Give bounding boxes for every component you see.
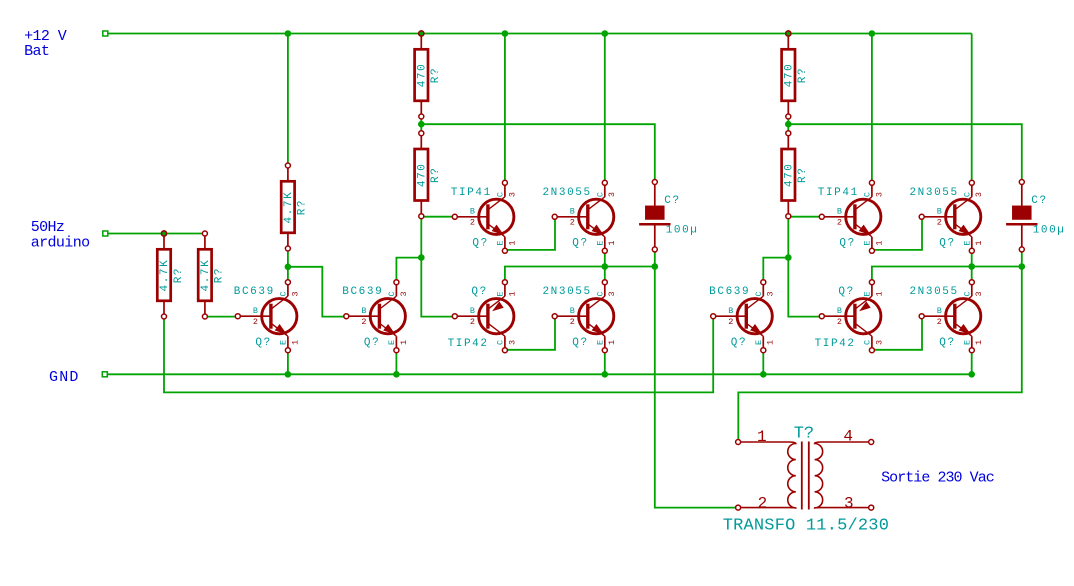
- capacitor C1 100u: [639, 180, 698, 252]
- svg-text:Q?: Q?: [939, 337, 955, 349]
- resistor R6 value 470: [782, 31, 810, 119]
- svg-text:E: E: [279, 340, 289, 345]
- wire 470L pin bridge: [420, 117, 422, 133]
- svg-text:E: E: [387, 340, 397, 345]
- pin-end ring on junction: [419, 31, 424, 36]
- svg-text:Q?: Q?: [255, 337, 271, 349]
- junction gnd-2N3055-2: [602, 371, 609, 378]
- svg-text:E: E: [596, 340, 606, 345]
- svg-text:2: 2: [570, 317, 575, 327]
- svg-text:TIP42: TIP42: [815, 338, 856, 350]
- svg-text:B: B: [837, 207, 842, 217]
- svg-text:100µ: 100µ: [666, 225, 699, 237]
- wire R7 bottom to TIP41-2 base: [788, 216, 822, 218]
- svg-text:GND: GND: [49, 369, 80, 386]
- svg-text:470: 470: [416, 162, 428, 187]
- svg-text:2: 2: [470, 218, 475, 228]
- junction out-left-cap: [652, 263, 659, 270]
- wire R3 node to BC639-2 base: [288, 267, 346, 317]
- svg-text:3: 3: [766, 291, 776, 296]
- svg-text:R?: R?: [430, 67, 442, 83]
- svg-text:1: 1: [290, 340, 300, 345]
- svg-text:1: 1: [874, 240, 884, 245]
- svg-text:2: 2: [361, 317, 366, 327]
- wire rail to TIP41-1 collector: [504, 34, 506, 184]
- wire TIP41-1 emitter to 2N3055-1 base: [505, 217, 555, 250]
- pin-end ring on junction: [161, 231, 166, 236]
- junction rail-R3: [285, 30, 292, 37]
- global label pad GND: [102, 372, 107, 377]
- svg-text:C: C: [496, 192, 506, 197]
- svg-text:1: 1: [507, 291, 517, 296]
- svg-text:BC639: BC639: [234, 286, 275, 298]
- junction rail-470L: [418, 30, 425, 37]
- svg-text:2: 2: [758, 494, 768, 512]
- wire BC639-2 emitter to GND: [395, 350, 397, 375]
- svg-text:Q?: Q?: [572, 337, 588, 349]
- junction gnd-BC639-2: [393, 371, 400, 378]
- svg-text:B: B: [728, 306, 733, 316]
- wire 470 junction to C2 top: [788, 124, 1022, 182]
- svg-text:470: 470: [416, 63, 428, 88]
- pin-end ring on junction: [786, 31, 791, 36]
- svg-text:C: C: [596, 291, 606, 296]
- wire BC639-3 collector link: [763, 258, 788, 283]
- junction drive right: [785, 254, 792, 261]
- svg-text:B: B: [837, 306, 842, 316]
- transistor Q6 (BC639): [342, 280, 409, 353]
- wire C2 bottom to transformer pin 1: [738, 249, 1022, 442]
- wire C1 bottom to transformer pin 2: [655, 249, 737, 507]
- svg-text:C: C: [596, 192, 606, 197]
- svg-text:R?: R?: [214, 267, 226, 283]
- junction gnd-BC639-3: [760, 371, 767, 378]
- resistor R3 value 4.7K: [281, 163, 309, 251]
- svg-text:3: 3: [974, 291, 984, 296]
- wire 50Hz rail: [108, 233, 205, 235]
- svg-text:C?: C?: [664, 195, 680, 207]
- svg-text:TRANSFO 11.5/230: TRANSFO 11.5/230: [723, 517, 889, 536]
- svg-text:Q?: Q?: [731, 337, 747, 349]
- svg-text:Bat: Bat: [24, 43, 49, 60]
- svg-text:B: B: [570, 207, 575, 217]
- svg-text:E: E: [863, 240, 873, 245]
- wire rail to TIP41-2 collector: [871, 34, 873, 184]
- svg-text:4: 4: [843, 427, 853, 445]
- capacitor C2 100u: [1006, 180, 1065, 252]
- junction 470R mid: [785, 121, 792, 128]
- svg-text:B: B: [570, 306, 575, 316]
- svg-text:C: C: [863, 192, 873, 197]
- wire 470 junction to C1 top: [421, 124, 655, 182]
- svg-text:TIP41: TIP41: [818, 187, 859, 199]
- resistor R4 value 470: [415, 31, 443, 119]
- wire output rail left: [505, 267, 655, 283]
- svg-text:2N3055: 2N3055: [909, 187, 958, 199]
- svg-text:Q?: Q?: [364, 337, 380, 349]
- svg-text:3: 3: [399, 291, 409, 296]
- wire R3 node to BC639-1 collector: [287, 249, 289, 282]
- svg-text:2: 2: [937, 317, 942, 327]
- svg-text:B: B: [470, 306, 475, 316]
- svg-text:3: 3: [874, 340, 884, 345]
- wire BC639-2 collector link: [396, 258, 421, 283]
- svg-text:Sortie 230 Vac: Sortie 230 Vac: [881, 469, 994, 486]
- resistor R2 value 4.7K: [198, 231, 226, 319]
- svg-text:100µ: 100µ: [1033, 225, 1066, 237]
- svg-text:C: C: [963, 192, 973, 197]
- junction rail-2N3055-1: [602, 30, 609, 37]
- wire cross-couple R1 to BC639-3 base: [164, 317, 713, 393]
- svg-text:3: 3: [507, 340, 517, 345]
- svg-text:B: B: [937, 207, 942, 217]
- svg-text:C: C: [387, 291, 397, 296]
- svg-text:E: E: [963, 240, 973, 245]
- svg-text:2: 2: [728, 317, 733, 327]
- svg-text:TIP42: TIP42: [448, 338, 489, 350]
- svg-text:2: 2: [470, 317, 475, 327]
- svg-text:T?: T?: [794, 425, 814, 444]
- svg-text:1: 1: [757, 428, 767, 446]
- svg-text:2: 2: [837, 317, 842, 327]
- wire TIP42-2 collector to 2N3055-4 base: [872, 317, 922, 350]
- transistor Q11 (2N3055): [909, 280, 984, 353]
- svg-text:1: 1: [607, 240, 617, 245]
- svg-text:4.7K: 4.7K: [283, 191, 295, 224]
- wire BC639-3 emitter to GND: [762, 350, 764, 375]
- svg-text:C: C: [863, 340, 873, 345]
- wire 2N3055-4 emitter to GND: [971, 350, 973, 375]
- svg-text:470: 470: [783, 63, 795, 88]
- wire 2N3055-1 emitter to 2N3055-2 collector: [604, 250, 606, 282]
- svg-text:2: 2: [837, 218, 842, 228]
- resistor R1 value 4.7K: [157, 231, 185, 319]
- svg-text:4.7K: 4.7K: [159, 259, 171, 292]
- wire TIP41-2 emitter to 2N3055-3 base: [872, 217, 922, 250]
- svg-text:Q?: Q?: [939, 237, 955, 249]
- svg-text:1: 1: [399, 340, 409, 345]
- wire 2N3055-2 emitter to GND: [604, 350, 606, 375]
- svg-text:B: B: [253, 306, 258, 316]
- wire BC639-1 emitter to GND: [287, 350, 289, 375]
- svg-text:1: 1: [974, 240, 984, 245]
- global label pad +12V: [103, 31, 108, 36]
- svg-text:B: B: [361, 306, 366, 316]
- junction out-right-3055: [968, 263, 975, 270]
- svg-text:3: 3: [844, 494, 854, 512]
- svg-text:Q?: Q?: [572, 237, 588, 249]
- svg-text:C: C: [754, 291, 764, 296]
- svg-text:E: E: [754, 340, 764, 345]
- junction drive left: [418, 254, 425, 261]
- transistor Q8 (2N3055): [542, 280, 617, 353]
- transistor Q9 (BC639): [709, 280, 776, 353]
- svg-text:C: C: [963, 291, 973, 296]
- svg-text:Q?: Q?: [839, 237, 855, 249]
- svg-text:2: 2: [570, 218, 575, 228]
- svg-text:arduino: arduino: [31, 234, 90, 251]
- wire rail to 2N3055-1 collector: [604, 34, 606, 184]
- svg-text:E: E: [596, 240, 606, 245]
- svg-text:C?: C?: [1031, 195, 1047, 207]
- wire output rail right: [872, 267, 1022, 283]
- svg-text:R?: R?: [297, 199, 309, 215]
- svg-text:Q?: Q?: [471, 286, 487, 298]
- transistor Q2 (2N3055): [542, 180, 617, 253]
- svg-text:R?: R?: [797, 167, 809, 183]
- svg-text:50Hz: 50Hz: [31, 219, 65, 236]
- svg-text:1: 1: [607, 340, 617, 345]
- svg-text:3: 3: [974, 192, 984, 197]
- svg-text:E: E: [496, 240, 506, 245]
- svg-text:C: C: [279, 291, 289, 296]
- transistor Q1 (TIP41): [451, 180, 518, 253]
- svg-text:3: 3: [507, 192, 517, 197]
- svg-text:TIP41: TIP41: [451, 187, 492, 199]
- svg-text:1: 1: [874, 291, 884, 296]
- svg-text:2N3055: 2N3055: [542, 187, 591, 199]
- svg-text:E: E: [963, 340, 973, 345]
- wire 2N3055-3 emitter to 2N3055-4 collector: [971, 250, 973, 282]
- wire rail to R3 4.7K: [287, 34, 289, 166]
- wire TIP42-1 collector to 2N3055-2 base: [505, 317, 555, 350]
- svg-text:Q?: Q?: [472, 237, 488, 249]
- wire 470R pin bridge: [787, 117, 789, 133]
- svg-text:Q?: Q?: [838, 286, 854, 298]
- junction gnd-2N3055-4: [968, 371, 975, 378]
- transistor Q3 (TIP41): [818, 180, 885, 253]
- transistor Q4 (2N3055): [909, 180, 984, 253]
- wire R2 bottom to BC639-1 base: [205, 316, 238, 318]
- junction R3 bottom: [285, 264, 292, 271]
- resistor R7 value 470: [782, 131, 810, 219]
- junction out-left-3055: [602, 263, 609, 270]
- svg-text:1: 1: [507, 240, 517, 245]
- svg-text:2N3055: 2N3055: [909, 286, 958, 298]
- wire rail end down to 2N3055-3 collector: [971, 34, 973, 184]
- svg-text:3: 3: [607, 192, 617, 197]
- transistor Q5 (BC639): [234, 280, 301, 353]
- svg-text:1: 1: [974, 340, 984, 345]
- svg-text:R?: R?: [797, 67, 809, 83]
- wire R7 node down to TIP42-2 base: [788, 217, 822, 317]
- resistor R5 value 470: [415, 131, 443, 219]
- svg-text:3: 3: [874, 192, 884, 197]
- svg-text:B: B: [937, 306, 942, 316]
- wire R5 bottom to TIP41-1 base: [421, 216, 455, 218]
- wire R5 node down to TIP42-1 base: [421, 217, 455, 317]
- svg-text:2N3055: 2N3055: [542, 286, 591, 298]
- svg-text:B: B: [470, 207, 475, 217]
- svg-text:BC639: BC639: [342, 286, 383, 298]
- transistor Q10 (TIP42): [815, 280, 885, 353]
- junction rail-TIP41-2: [869, 30, 876, 37]
- svg-text:3: 3: [290, 291, 300, 296]
- svg-text:2: 2: [253, 317, 258, 327]
- svg-text:470: 470: [783, 162, 795, 187]
- global label pad 50Hz: [103, 231, 108, 236]
- svg-text:C: C: [496, 340, 506, 345]
- junction 470L mid: [418, 121, 425, 128]
- svg-text:2: 2: [937, 218, 942, 228]
- svg-text:R?: R?: [430, 167, 442, 183]
- junction out-right-cap: [1019, 263, 1026, 270]
- transistor Q7 (TIP42): [448, 280, 518, 353]
- junction 50Hz-R1: [161, 230, 168, 237]
- svg-text:4.7K: 4.7K: [200, 259, 212, 292]
- svg-text:3: 3: [607, 291, 617, 296]
- junction rail-470R: [785, 30, 792, 37]
- transformer T1 TRANSFO 11.5/230: [736, 440, 874, 511]
- wire +12V top rail: [108, 33, 972, 35]
- junction rail-TIP41-1: [502, 30, 509, 37]
- junction gnd-BC639-1: [285, 371, 292, 378]
- svg-text:E: E: [496, 291, 506, 296]
- svg-text:BC639: BC639: [709, 286, 750, 298]
- svg-text:R?: R?: [173, 267, 185, 283]
- svg-text:1: 1: [766, 340, 776, 345]
- svg-text:E: E: [863, 291, 873, 296]
- wire GND rail: [107, 373, 972, 375]
